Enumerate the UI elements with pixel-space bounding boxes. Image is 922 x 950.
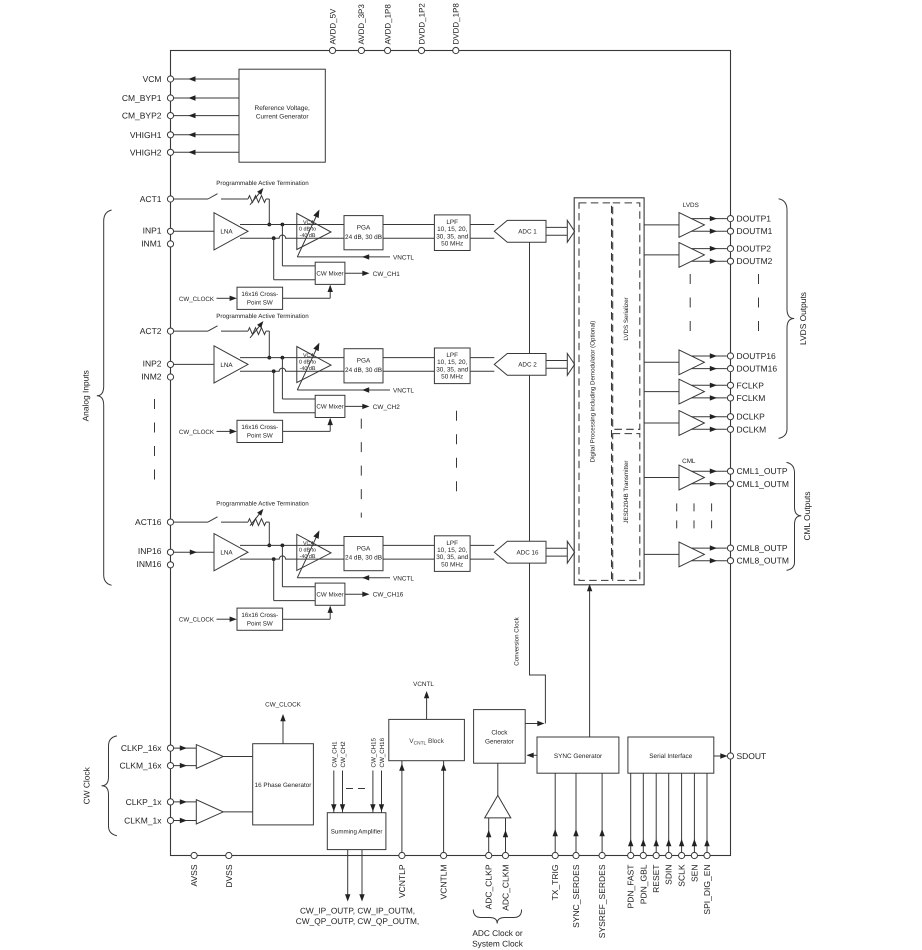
svg-text:CW_CH2: CW_CH2	[340, 741, 347, 768]
svg-text:CW_CLOCK: CW_CLOCK	[179, 296, 215, 303]
wire output DOUTP16	[692, 353, 727, 358]
ellipsis dashes CML column 3	[711, 503, 713, 530]
pin SEN	[689, 852, 699, 882]
svg-text:24 dB, 30 dB: 24 dB, 30 dB	[345, 555, 382, 562]
pin DCLKM	[727, 424, 766, 434]
svg-text:16x16 Cross-: 16x16 Cross-	[241, 291, 278, 298]
wire RESET to Serial Interface	[654, 773, 659, 852]
pin DOUTM16	[727, 364, 777, 374]
svg-text:CW_IP_OUTP, CW_IP_OUTM,: CW_IP_OUTP, CW_IP_OUTM,	[300, 906, 415, 916]
wire termination to input ch2	[266, 331, 271, 359]
wire INP1 to LNA	[174, 230, 214, 232]
svg-text:CML8_OUTP: CML8_OUTP	[737, 543, 788, 553]
svg-text:DOUTM1: DOUTM1	[737, 226, 773, 236]
svg-text:24 dB, 30 dB: 24 dB, 30 dB	[345, 367, 382, 374]
svg-text:SYSREF_SERDES: SYSREF_SERDES	[597, 864, 607, 938]
wire CW_CH2 output	[345, 404, 400, 411]
wire CLKM_16x to clock buffer	[174, 763, 197, 768]
wire differential pair bottom ch2 with crossover hop	[240, 368, 494, 373]
pin AVDD_3P3	[357, 4, 366, 54]
svg-text:VCNTL: VCNTL	[413, 681, 434, 688]
svg-text:INM2: INM2	[141, 371, 162, 381]
ellipsis dashes LPF column	[456, 411, 458, 502]
svg-text:Digital Processing including D: Digital Processing including Demodulator…	[590, 321, 597, 463]
wire tap to CW mixer ch1 bottom	[274, 238, 316, 280]
svg-text:CW_CH1: CW_CH1	[373, 271, 400, 278]
svg-text:PDN_GBL: PDN_GBL	[638, 864, 648, 904]
wire CW_CLOCK into cross-point switch ch16	[179, 617, 237, 624]
pin CML8_OUTM	[727, 556, 789, 566]
wire digital block to buffer DCLK	[644, 422, 679, 424]
svg-text:50 MHz: 50 MHz	[441, 374, 463, 381]
svg-text:INP2: INP2	[143, 358, 162, 368]
brace CML Outputs	[787, 462, 813, 570]
switch SW1 active termination	[174, 194, 248, 199]
wire output CML1_OUTM	[692, 481, 727, 486]
svg-text:Programmable Active Terminatio: Programmable Active Termination	[216, 501, 309, 508]
svg-text:CML: CML	[682, 458, 696, 465]
pin CLKM_1x	[124, 816, 173, 826]
wire CW_CLOCK output of phase generator	[265, 702, 301, 744]
svg-text:ACT16: ACT16	[135, 517, 162, 527]
wire SEN to Serial Interface	[692, 773, 697, 852]
wire output FCLKP	[692, 383, 727, 388]
svg-text:DVSS: DVSS	[224, 864, 234, 887]
svg-text:DOUTP2: DOUTP2	[737, 244, 772, 254]
buffer driver for FCLKP/FCLKM	[679, 379, 704, 404]
ellipsis dashes summing amplifier inputs	[346, 788, 368, 790]
pin DCLKP	[727, 412, 765, 422]
block Digital Processing including Demodulator (Optional)	[579, 203, 612, 581]
wire output DOUTM2	[692, 259, 727, 264]
svg-text:SDOUT: SDOUT	[737, 751, 767, 761]
switch SW16 active termination	[174, 517, 248, 522]
svg-text:CML8_OUTM: CML8_OUTM	[737, 556, 789, 566]
wire CW_CH16 output	[345, 592, 404, 599]
svg-text:30, 35, and: 30, 35, and	[436, 366, 468, 373]
buffer driver for DOUTP16/DOUTM16	[679, 350, 704, 375]
pin DOUTP16	[727, 351, 776, 361]
wire Clock Generator to conversion clock trunk	[525, 721, 544, 726]
svg-text:DOUTP16: DOUTP16	[737, 351, 776, 361]
brace Analog Inputs	[81, 210, 112, 585]
svg-text:CLKM_1x: CLKM_1x	[124, 816, 162, 826]
buffer driver for DOUTP1/DOUTM1	[679, 213, 704, 238]
amplifier VCA ch1	[297, 213, 331, 249]
svg-text:FCLKP: FCLKP	[737, 380, 765, 390]
wire ADC clock buffer to Clock Generator	[497, 763, 499, 795]
wire PDN_FAST to Serial Interface	[628, 773, 633, 852]
wire SPI_DIG_EN to Serial Interface	[704, 773, 709, 852]
svg-text:INP1: INP1	[143, 225, 162, 235]
wire tap to CW mixer ch2 top	[282, 358, 315, 399]
block digital processing outer solid box	[574, 198, 644, 585]
svg-text:Point SW: Point SW	[247, 300, 273, 307]
ellipsis dashes LVDS labels column	[758, 274, 760, 335]
amplifier LNA ch16	[214, 534, 248, 571]
mixer CW Mixer ch1	[315, 262, 345, 284]
block PGA ch16	[344, 537, 383, 571]
pin AVSS	[189, 852, 199, 886]
wire output FCLKM	[692, 395, 727, 400]
svg-text:ADC 16: ADC 16	[516, 550, 539, 557]
ADC 1	[494, 220, 546, 242]
wire clock buffer 16x to phase generator	[223, 756, 253, 758]
wire differential pair top ch1	[240, 223, 494, 227]
wire clock buffer 1x to phase generator	[223, 811, 253, 813]
pin INP1	[143, 225, 174, 235]
wire CW_CH1 output	[345, 271, 400, 278]
wire output CML8_OUTP	[692, 545, 727, 550]
pin FCLKP	[727, 380, 764, 390]
svg-text:VNCTL: VNCTL	[393, 388, 414, 395]
svg-text:VCM: VCM	[143, 74, 162, 84]
svg-text:LVDS Outputs: LVDS Outputs	[798, 292, 808, 345]
wire CM_BYP2 from reference generator	[174, 113, 239, 118]
svg-text:Generator: Generator	[485, 738, 515, 745]
pin SCLK	[677, 852, 687, 886]
wire CW_CLOCK into cross-point switch ch1	[179, 296, 237, 303]
wire output DOUTM1	[692, 229, 727, 234]
svg-text:CW Mixer: CW Mixer	[316, 271, 343, 278]
pin CLKP_16x	[121, 743, 174, 753]
svg-text:VCNTLM: VCNTLM	[439, 865, 449, 900]
wire SYNC_SERDES to SYNC Generator	[573, 773, 578, 852]
switch SW2 active termination	[174, 326, 248, 331]
wire VHIGH1 from reference generator	[174, 132, 239, 137]
resistor R1 programmable termination	[248, 188, 266, 205]
wire VCM from reference generator	[174, 76, 239, 81]
block 16 Phase Generator	[253, 744, 314, 825]
label ADC Clock or System Clock	[472, 928, 524, 949]
svg-text:CLKP_16x: CLKP_16x	[121, 743, 162, 753]
svg-text:CM_BYP1: CM_BYP1	[122, 93, 162, 103]
pin VHIGH2	[130, 147, 174, 157]
wire INP16 to LNA	[174, 550, 214, 555]
pin PDN_GBL	[638, 852, 648, 904]
svg-text:SYNC_SERDES: SYNC_SERDES	[571, 864, 581, 928]
buffer driver for DCLKP/DCLKM	[679, 411, 704, 436]
pin ACT2	[140, 326, 174, 336]
pin DOUTM2	[727, 256, 772, 266]
svg-text:16 Phase Generator: 16 Phase Generator	[255, 782, 312, 789]
ADC 2	[494, 354, 546, 376]
svg-text:10, 15, 20,: 10, 15, 20,	[437, 547, 467, 554]
wire digital block to buffer CML1_OUT	[644, 477, 679, 479]
svg-text:DVDD_1P8: DVDD_1P8	[452, 3, 461, 45]
wire INP2 to LNA	[174, 363, 214, 365]
svg-text:PGA: PGA	[357, 224, 371, 231]
svg-text:CW_CH16: CW_CH16	[373, 592, 404, 599]
svg-text:System Clock: System Clock	[472, 939, 524, 949]
bus arrow ADC 16 to digital block	[546, 541, 575, 563]
wire Conversion Clock trunk	[514, 242, 546, 724]
buffer CW clock 16x	[196, 745, 223, 769]
svg-text:DCLKP: DCLKP	[737, 412, 766, 422]
svg-text:LPF: LPF	[446, 540, 458, 547]
chip outer boundary	[171, 51, 731, 856]
ellipsis dashes CML column 1	[676, 503, 678, 530]
block Serial Interface	[628, 737, 714, 773]
svg-text:SDIN: SDIN	[664, 865, 674, 885]
svg-text:DOUTM16: DOUTM16	[737, 364, 778, 374]
svg-text:SEN: SEN	[689, 865, 699, 882]
wire CLKP_1x to clock buffer	[174, 799, 197, 804]
svg-text:VNCTL: VNCTL	[393, 254, 414, 261]
pin INP2	[143, 358, 174, 368]
wire Serial Interface to SDOUT	[714, 753, 728, 758]
svg-text:PGA: PGA	[357, 358, 371, 365]
buffer driver for CML1_OUTP/CML1_OUTM	[679, 465, 704, 490]
svg-text:30, 35, and: 30, 35, and	[436, 554, 468, 561]
bus arrow ADC 1 to digital block	[546, 220, 575, 242]
block LPF ch2	[434, 348, 470, 384]
svg-text:50 MHz: 50 MHz	[441, 561, 463, 568]
pin CLKP_1x	[126, 797, 174, 807]
svg-text:VNCTL: VNCTL	[393, 575, 414, 582]
pin ACT16	[135, 517, 174, 527]
pin CM_BYP2	[122, 111, 174, 121]
wire termination to input ch1	[266, 199, 271, 226]
pin VCNTLM	[439, 852, 449, 899]
wire CLKP_16x to clock buffer	[174, 745, 197, 750]
svg-text:INP16: INP16	[138, 546, 162, 556]
svg-text:CLKP_1x: CLKP_1x	[126, 797, 163, 807]
svg-text:VHIGH2: VHIGH2	[130, 147, 162, 157]
block SYNC Generator	[537, 737, 619, 773]
svg-text:CW_CLOCK: CW_CLOCK	[265, 702, 301, 709]
svg-text:CW Mixer: CW Mixer	[316, 404, 343, 411]
svg-text:LVDS Serializer: LVDS Serializer	[623, 297, 630, 340]
wire output CML8_OUTM	[692, 558, 727, 563]
pin CLKM_16x	[119, 761, 173, 771]
wire VNCTL ch2	[297, 387, 414, 394]
wire VCA gain control arrow ch2	[297, 343, 319, 390]
pin SPI_DIG_EN	[702, 852, 712, 914]
wire CW_CH16 into summing amplifier	[379, 737, 386, 812]
wire tap to CW mixer ch1 top	[282, 225, 315, 266]
svg-text:FCLKM: FCLKM	[737, 393, 766, 403]
wire VCNTL output	[413, 681, 434, 719]
svg-text:CW_CLOCK: CW_CLOCK	[179, 429, 215, 436]
block Summing Amplifier	[327, 813, 386, 850]
label CW output pins	[296, 906, 419, 927]
pin CML8_OUTP	[727, 543, 787, 553]
svg-text:CML Outputs: CML Outputs	[802, 491, 812, 540]
wire CLKM_1x to clock buffer	[174, 818, 197, 823]
wire output DOUTP2	[692, 246, 727, 251]
svg-text:LNA: LNA	[220, 362, 233, 369]
svg-text:CW Mixer: CW Mixer	[316, 592, 343, 599]
buffer ADC clock input	[485, 795, 511, 818]
wire cross-point switch to mixer ch2	[283, 418, 333, 432]
wire PDN_GBL to Serial Interface	[641, 773, 646, 852]
resistor R2 programmable termination	[248, 321, 266, 338]
svg-text:Serial Interface: Serial Interface	[649, 753, 692, 760]
pin FCLKM	[727, 393, 765, 403]
svg-text:CW_CH15: CW_CH15	[370, 737, 377, 767]
ellipsis dashes LVDS buffers column	[689, 274, 691, 335]
svg-text:16x16 Cross-: 16x16 Cross-	[241, 424, 278, 431]
pin ADC_CLKP	[484, 852, 494, 909]
wire VCNTLM to VCNTL block	[441, 761, 446, 853]
pin SYSREF_SERDES	[597, 852, 607, 938]
svg-text:CML1_OUTM: CML1_OUTM	[737, 479, 789, 489]
block LVDS Serializer	[613, 203, 640, 429]
wire tap to CW mixer ch2 bottom	[274, 371, 316, 413]
wire digital block to buffer DOUTP	[644, 254, 679, 256]
wire SYSREF_SERDES to SYNC Generator	[599, 773, 604, 852]
svg-text:LNA: LNA	[220, 550, 233, 557]
wire SYNC Generator to Clock Generator	[527, 753, 538, 758]
block Reference Voltage, Current Generator	[239, 69, 325, 162]
wire CW_QP output	[359, 850, 364, 902]
ellipsis dashes mid column	[360, 419, 362, 518]
pin SYNC_SERDES	[571, 852, 581, 927]
svg-text:SYNC Generator: SYNC Generator	[554, 753, 603, 760]
svg-text:16x16 Cross-: 16x16 Cross-	[241, 612, 278, 619]
pin SDIN	[664, 852, 674, 884]
bus arrow ADC 2 to digital block	[546, 354, 575, 376]
pin PDN_FAST	[626, 852, 636, 908]
wire tap to CW mixer ch16 bottom	[274, 559, 316, 601]
svg-text:DCLKM: DCLKM	[737, 424, 767, 434]
pin ADC_CLKM	[501, 852, 511, 910]
wire ADC_CLKM to clock buffer	[503, 818, 508, 853]
svg-text:ADC_CLKM: ADC_CLKM	[501, 865, 511, 911]
svg-text:CM_BYP2: CM_BYP2	[122, 111, 162, 121]
pin DOUTM1	[727, 226, 772, 236]
svg-text:0 dB to: 0 dB to	[299, 547, 316, 553]
svg-text:TX_TRIG: TX_TRIG	[550, 865, 560, 901]
svg-text:VCNTLP: VCNTLP	[397, 864, 407, 898]
svg-text:AVDD_1P8: AVDD_1P8	[383, 4, 392, 45]
ellipsis dashes CML column 2	[693, 503, 695, 530]
svg-text:DVDD_1P2: DVDD_1P2	[417, 3, 426, 45]
pin CML1_OUTP	[727, 466, 787, 476]
wire differential pair top ch2	[240, 356, 494, 360]
pin VHIGH1	[130, 130, 174, 140]
pin AVDD_5V	[328, 8, 337, 54]
pin INM2	[141, 371, 173, 381]
wire output DOUTP1	[692, 216, 727, 221]
wire CW_CH2 into summing amplifier	[340, 741, 347, 813]
pin AVDD_1P8	[383, 4, 392, 54]
block VCNTL Block	[389, 719, 465, 760]
svg-text:AVSS: AVSS	[189, 864, 199, 886]
wire tap to CW mixer ch16 top	[282, 545, 315, 586]
wire digital block to buffer DOUTP1	[644, 361, 679, 363]
svg-text:CW_CH2: CW_CH2	[373, 404, 400, 411]
svg-text:AVDD_5V: AVDD_5V	[328, 8, 337, 45]
wire VCA gain control arrow ch1	[297, 210, 319, 257]
svg-text:Current Generator: Current Generator	[256, 114, 310, 121]
pin RESET	[651, 852, 661, 892]
ellipsis dashes pins column	[154, 399, 156, 485]
svg-text:Clock: Clock	[491, 729, 508, 736]
svg-text:Summing Amplifier: Summing Amplifier	[331, 829, 383, 836]
svg-text:ADC 2: ADC 2	[518, 362, 537, 369]
block JESD204B Transmitter	[613, 434, 640, 581]
buffer CW clock 1x	[196, 800, 223, 824]
svg-text:LPF: LPF	[446, 219, 458, 226]
block LPF ch16	[434, 536, 470, 572]
wire cross-point switch to mixer ch16	[283, 606, 333, 620]
wire SYNC Generator to digital block	[587, 584, 592, 737]
buffer driver for DOUTP2/DOUTM2	[679, 243, 704, 268]
svg-text:0 dB to: 0 dB to	[299, 227, 316, 233]
amplifier LNA ch1	[214, 213, 248, 250]
wire digital block to buffer FCLK	[644, 391, 679, 393]
svg-text:SCLK: SCLK	[677, 864, 687, 887]
svg-text:VHIGH1: VHIGH1	[130, 130, 162, 140]
svg-text:24 dB, 30 dB: 24 dB, 30 dB	[345, 234, 382, 241]
svg-text:PDN_FAST: PDN_FAST	[626, 865, 636, 909]
pin VCNTLP	[397, 852, 407, 898]
wire VNCTL ch1	[297, 254, 414, 261]
wire output CML1_OUTP	[692, 469, 727, 474]
svg-text:DOUTM2: DOUTM2	[737, 256, 773, 266]
wire CW_CH1 into summing amplifier	[331, 741, 338, 813]
wire output DCLKP	[692, 414, 727, 419]
svg-text:LVDS: LVDS	[683, 202, 699, 209]
svg-text:SPI_DIG_EN: SPI_DIG_EN	[702, 865, 712, 915]
wire VCNTLP to VCNTL block	[399, 761, 404, 853]
svg-text:Programmable Active Terminatio: Programmable Active Termination	[216, 180, 309, 187]
brace ADC Clock or System Clock	[473, 910, 521, 924]
brace LVDS Outputs	[779, 199, 808, 439]
pin DVDD_1P2	[417, 3, 426, 54]
block 16x16 Cross-Point SW ch16	[237, 608, 283, 630]
ADC 16	[494, 541, 546, 563]
svg-text:ADC 1: ADC 1	[518, 229, 537, 236]
svg-text:DOUTP1: DOUTP1	[737, 214, 772, 224]
pin DVSS	[224, 852, 234, 887]
svg-text:CW_CLOCK: CW_CLOCK	[179, 617, 215, 624]
wire cross-point switch to mixer ch1	[283, 285, 333, 299]
svg-text:AVDD_3P3: AVDD_3P3	[357, 4, 366, 45]
svg-text:INM1: INM1	[141, 238, 162, 248]
wire VHIGH2 from reference generator	[174, 150, 239, 155]
wire output DOUTM16	[692, 366, 727, 371]
wire differential pair bottom ch1 with crossover hop	[240, 235, 494, 240]
pin INM16	[136, 559, 173, 569]
svg-text:ACT1: ACT1	[140, 194, 162, 204]
wire ADC_CLKP to clock buffer	[486, 818, 491, 853]
wire termination to input ch16	[266, 522, 271, 547]
block Clock Generator	[474, 710, 526, 764]
block PGA ch1	[344, 216, 383, 250]
svg-text:CW_CH1: CW_CH1	[331, 741, 338, 768]
wire CM_BYP1 from reference generator	[174, 95, 239, 100]
mixer CW Mixer ch2	[315, 395, 345, 417]
resistor R16 programmable termination	[248, 509, 266, 526]
svg-text:CW_QP_OUTP, CW_QP_OUTM,: CW_QP_OUTP, CW_QP_OUTM,	[296, 916, 419, 926]
pin DOUTP1	[727, 214, 771, 224]
mixer CW Mixer ch16	[315, 583, 345, 605]
svg-text:CW_CH16: CW_CH16	[379, 737, 386, 767]
pin TX_TRIG	[550, 852, 560, 900]
svg-text:LNA: LNA	[220, 229, 233, 236]
svg-text:Reference Voltage,: Reference Voltage,	[255, 105, 310, 112]
block LPF ch1	[434, 215, 470, 251]
svg-text:ADC Clock or: ADC Clock or	[472, 928, 522, 938]
pin DOUTP2	[727, 244, 771, 254]
brace CW Clock	[82, 736, 117, 836]
wire differential pair top ch16	[240, 544, 494, 548]
svg-text:10, 15, 20,: 10, 15, 20,	[437, 226, 467, 233]
wire VCA gain control arrow ch16	[297, 530, 319, 577]
